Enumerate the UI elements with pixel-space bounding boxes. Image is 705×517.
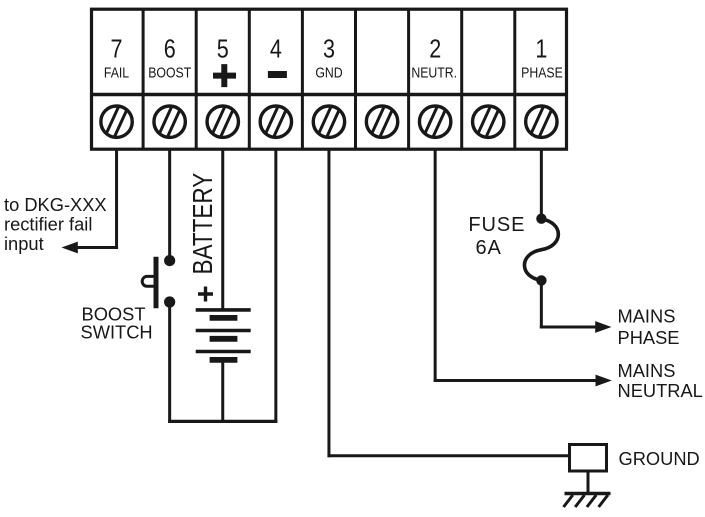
svg-text:2: 2 — [429, 35, 441, 64]
svg-text:rectifier fail: rectifier fail — [4, 214, 92, 235]
svg-text:NEUTRAL: NEUTRAL — [618, 380, 703, 401]
text BOOST SWITCH — [81, 303, 153, 342]
text FUSE 6A — [468, 214, 525, 259]
screw terminal 4 — [260, 106, 291, 137]
screw terminal unused B — [473, 106, 504, 137]
wire terminal 7 horizontal — [75, 246, 118, 249]
terminal 1 label PHASE — [521, 35, 563, 81]
text to DKG-XXX rectifier fail input — [4, 194, 107, 254]
wire terminal 2 horizontal — [434, 379, 598, 382]
wire terminal 6 to switch — [168, 149, 171, 260]
wire battery to bottom bus — [221, 360, 224, 423]
svg-text:input: input — [4, 233, 44, 254]
screw terminal 3 — [313, 106, 344, 137]
terminal block cell dividers — [143, 9, 515, 149]
arrow MAINS NEUTRAL — [596, 375, 612, 387]
wire terminal 3 vertical — [327, 149, 330, 457]
svg-text:NEUTR.: NEUTR. — [411, 64, 457, 80]
terminal block outline — [90, 9, 568, 149]
earth ground symbol — [564, 472, 611, 507]
wire terminal 2 vertical — [434, 149, 437, 382]
text MAINS PHASE — [618, 306, 680, 348]
svg-text:BATTERY: BATTERY — [188, 172, 219, 274]
terminal 5 label plus — [213, 35, 236, 87]
svg-text:5: 5 — [217, 35, 229, 64]
svg-text:to DKG-XXX: to DKG-XXX — [4, 194, 107, 215]
wire fuse down — [540, 280, 543, 328]
screw terminal 1 — [526, 106, 557, 137]
wire bottom bus — [168, 420, 277, 423]
svg-text:1: 1 — [535, 35, 547, 64]
arrow MAINS PHASE — [595, 321, 611, 333]
screw terminal 6 — [154, 106, 185, 137]
ground box — [570, 445, 607, 472]
text MAINS NEUTRAL — [618, 360, 703, 401]
screw terminal 7 — [101, 106, 132, 137]
terminal 2 label NEUTR. — [411, 35, 457, 81]
battery B1 — [196, 310, 251, 360]
terminal 7 label FAIL — [104, 35, 130, 81]
push-button BOOST SWITCH — [142, 255, 175, 308]
screw terminal unused A — [366, 106, 397, 137]
svg-text:PHASE: PHASE — [618, 327, 680, 348]
terminal 6 label BOOST — [148, 35, 192, 81]
wire terminal 7 vertical — [115, 149, 118, 249]
svg-text:MAINS: MAINS — [618, 360, 676, 381]
svg-text:4: 4 — [270, 35, 282, 64]
wire terminal 5 to battery — [221, 149, 224, 310]
screw terminal 2 — [419, 106, 450, 137]
battery plus sign — [198, 287, 213, 302]
wire to mains phase arrow — [540, 326, 598, 329]
svg-text:MAINS: MAINS — [618, 306, 676, 327]
svg-text:6A: 6A — [475, 237, 501, 259]
wire switch to bottom bus — [168, 302, 171, 423]
svg-text:3: 3 — [323, 35, 335, 64]
svg-text:FAIL: FAIL — [104, 64, 130, 80]
svg-text:GROUND: GROUND — [619, 448, 700, 469]
svg-text:GND: GND — [315, 64, 342, 80]
screw terminal 5 — [207, 106, 238, 137]
terminal 3 label GND — [315, 35, 342, 81]
svg-text:7: 7 — [111, 35, 123, 64]
svg-text:PHASE: PHASE — [521, 64, 563, 80]
terminal 4 label minus — [268, 35, 287, 78]
wire terminal 3 horizontal to ground — [327, 454, 568, 457]
fuse 6A — [524, 214, 558, 286]
svg-text:SWITCH: SWITCH — [81, 322, 153, 343]
wire terminal 1 to fuse — [540, 149, 543, 219]
wire terminal 4 to bottom bus — [274, 149, 277, 423]
svg-text:6: 6 — [164, 35, 176, 64]
arrow to DKG fail input — [62, 242, 78, 254]
svg-text:FUSE: FUSE — [468, 214, 525, 236]
svg-text:BOOST: BOOST — [148, 64, 192, 80]
